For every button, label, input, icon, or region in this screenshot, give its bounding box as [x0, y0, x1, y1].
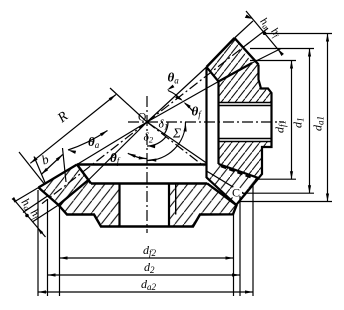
gear2 left rim outer face (thick): [39, 188, 59, 206]
gear2 root line left (thin from O): [89, 122, 147, 180]
label C: [230, 187, 242, 199]
d_f2 left extension line (vertical): [59, 204, 61, 296]
hatched section: gear2 right rim and body: [169, 184, 237, 227]
bottom dimension d_a2: [38, 291, 253, 293]
pitch line OC hidden part (dashed): [221, 166, 253, 178]
pinion tip line top (thin from O): [147, 67, 207, 122]
bottom dimension d_2: [48, 274, 241, 276]
pinion hub left face (thick vertical): [217, 82, 219, 165]
pinion top rim root edge (thick): [219, 63, 253, 82]
gear2 bore step line: [175, 184, 177, 215]
dimension R line with arrows: [30, 95, 116, 164]
svg-text:O: O: [138, 112, 146, 124]
pitch line pinion top (dash-dot): [147, 43, 249, 122]
R outer extension line (lower-left): [19, 152, 44, 184]
gear2 bore wall left (thick): [118, 184, 120, 227]
right dimension d_f1: [291, 61, 293, 180]
pinion top back-cone face (thick): [235, 38, 259, 65]
pitch line OC solid-then-hidden: dash-dot part: [147, 122, 204, 166]
pinion top rim inner face (thick): [207, 67, 219, 82]
gear2 root land top horizontal (thick): [77, 163, 207, 165]
svg-text:C: C: [232, 186, 240, 200]
h_a h_f top extension lines: [235, 21, 254, 38]
theta_a arc left with arrows: [68, 131, 108, 151]
hatched section: gear2 left rim and body: [39, 164, 259, 227]
h_a h_f top dimension line: [246, 11, 281, 53]
b inner extension line: [63, 148, 67, 182]
h_a h_f left dimension line: [13, 199, 46, 238]
gear2 left rim tip edge (thick): [39, 165, 78, 188]
pitch line gear2 left (dash-dot): [42, 122, 147, 204]
right dimension d_a1: [327, 34, 329, 202]
dimension b line with arrows: [41, 155, 63, 175]
axis of gear 2 (vertical centerline): [146, 96, 148, 233]
gear2 right rim top edge (thick): [207, 183, 237, 205]
bottom dimension d_f2: [60, 257, 234, 259]
delta_2 arc with arrow: [147, 137, 166, 146]
h_a h_f left extension lines: [14, 188, 39, 203]
pinion body right profile with notch (thick): [236, 65, 271, 205]
axis of gear 1 (horizontal centerline): [128, 121, 284, 123]
hatched section: pinion body upper half: [219, 63, 272, 103]
delta_1 arc: [164, 122, 169, 135]
pinion bore / keyway lines: [219, 102, 272, 104]
right dimension d_1: [309, 49, 311, 194]
gear2 tip line left (thin from O): [77, 122, 147, 165]
gear2 tip line right / pinion root line (thin from O): [147, 122, 207, 163]
pinion small-end face (thick vertical): [205, 67, 207, 178]
gear2 body bottom-left outline: [59, 205, 237, 227]
theta_f arc right with arrow: [185, 103, 194, 112]
bottom extension lines: [37, 190, 39, 296]
hatched section: pinion lower rim (mesh zone): [207, 164, 259, 205]
cone distance R extension line at O: [110, 88, 147, 122]
pinion lower rim root edge (thick): [219, 164, 259, 178]
hatched section: pinion body lower half: [219, 142, 272, 179]
svg-text:Σ: Σ: [172, 126, 181, 141]
pinion lower tip edge (thick, contact double line): [207, 177, 237, 204]
gear2 left rim inner face (thick): [77, 165, 91, 184]
Sigma arc with arrows: [147, 122, 186, 161]
gear2 right rim tip edge beyond pinion body: [207, 171, 247, 195]
pinion root line top (thin from O): [147, 82, 219, 123]
theta_a arc right with arrows: [168, 91, 182, 100]
gear2 bore wall right (thick): [168, 184, 170, 227]
theta_f arc left with arrows: [128, 153, 147, 158]
gear2 left root edge (thick): [59, 180, 90, 206]
pinion top rim tip edge (thick): [207, 38, 235, 67]
hatched section: pinion top rim: [207, 38, 253, 82]
gear2 web top horizontal (thick): [91, 182, 207, 184]
b left extension line: [34, 157, 45, 183]
